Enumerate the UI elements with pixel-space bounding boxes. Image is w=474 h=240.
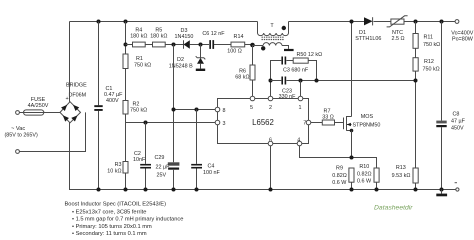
capacitor C8 [436,22,465,190]
svg-text:Vo=400V: Vo=400V [451,30,473,36]
svg-text:C4: C4 [208,164,215,170]
svg-text:180 kΩ: 180 kΩ [150,34,167,40]
diode D1 [355,17,381,42]
junction C29 bottom [172,188,176,192]
junction chain start [124,43,128,47]
junction R50 tap [315,79,319,83]
svg-text:R50 12 kΩ: R50 12 kΩ [297,52,323,58]
pin 5 [250,96,255,101]
svg-text:• Primary: 105 turns 20x0.1 mm: • Primary: 105 turns 20x0.1 mm [72,224,152,230]
junction C4 tap [195,108,199,112]
svg-text:1N4150: 1N4150 [175,34,194,40]
svg-text:D2: D2 [177,57,184,63]
svg-text:100 nF: 100 nF [203,170,220,176]
wire Vcc to pin8 [174,109,216,111]
svg-text:0.6 W: 0.6 W [357,179,372,185]
svg-text:2: 2 [269,105,272,111]
svg-text:R12: R12 [424,59,434,65]
junction R3 bottom [124,188,128,192]
wire pin4 sense [300,146,377,168]
junction pin6 bottom [269,188,273,192]
resistor R4 [130,28,147,47]
pin 8 [215,107,220,112]
capacitor C1 [94,22,123,190]
AC input terminal L [16,111,20,115]
svg-text:1N5248 B: 1N5248 B [169,64,193,70]
svg-text:MOS: MOS [361,114,374,120]
junction C8 rail [440,20,444,24]
svg-text:R10: R10 [359,164,369,170]
svg-text:22 µF: 22 µF [156,165,171,171]
junction R11 rail [414,20,418,24]
resistor R3 [107,162,128,175]
wire left divider [125,22,127,190]
pin 6 [268,141,273,146]
svg-text:R3: R3 [115,162,122,168]
junction comp left [269,79,273,83]
wire source [351,131,353,158]
junction sense node [350,156,354,160]
junction drain rail [350,20,354,24]
svg-text:3: 3 [223,121,226,127]
junction R9 bottom [350,188,354,192]
wire pin1 vertical [300,81,302,97]
transformer T secondary [253,43,289,49]
svg-text:• 1.5 mm gap for 0.7 mH primar: • 1.5 mm gap for 0.7 mH primary inductan… [72,217,183,223]
svg-text:• Secondary: 11 turns 0.1 mm: • Secondary: 11 turns 0.1 mm [72,231,147,237]
svg-text:C8: C8 [453,112,460,118]
svg-text:Po=80W: Po=80W [452,37,474,43]
svg-text:750 kΩ: 750 kΩ [423,42,440,48]
svg-text:33 Ω: 33 Ω [322,114,334,120]
resistor R5 [150,28,167,47]
op-amp U1 L6562 [218,99,309,144]
svg-text:8: 8 [223,108,226,114]
junction divider tap [414,79,418,83]
svg-text:180 kΩ: 180 kΩ [130,34,147,40]
svg-text:C3 680 nF: C3 680 nF [283,68,309,74]
wire R50 corner [308,61,316,81]
svg-text:750 kΩ: 750 kΩ [423,66,440,72]
svg-text:DF06M: DF06M [69,93,87,99]
transformer phase dot secondary [261,46,265,50]
watermark [374,205,413,212]
svg-text:C6 12 nF: C6 12 nF [202,31,225,37]
junction C8 bottom [440,188,444,192]
pin 2 [268,96,273,101]
svg-text:STP8NM50: STP8NM50 [353,122,381,128]
diode D3 [175,28,194,49]
junction C2 bottom [144,188,148,192]
wire fuse input [19,112,24,114]
svg-text:68 kΩ: 68 kΩ [235,75,249,81]
AC input terminal N [16,150,20,154]
ground main [436,190,447,197]
junction ZCD node [250,43,255,48]
svg-text:100 Ω: 100 Ω [227,48,242,54]
bridge rectifier DF06M [60,83,87,123]
resistor R10 [357,164,379,190]
resistor R13 [392,165,419,190]
resistor R2 [123,101,147,115]
svg-text:D1: D1 [359,30,366,36]
resistor R7 [311,109,343,126]
transformer phase dot primary [282,26,286,30]
resistor R50 [286,52,322,63]
svg-text:(85V to 265V): (85V to 265V) [5,133,38,139]
ground aux winding [284,49,294,51]
resistor R11 [413,22,440,58]
svg-text:R9: R9 [336,165,343,171]
wire pin6 ground [270,146,272,190]
svg-text:R13: R13 [396,165,406,171]
svg-text:1: 1 [299,105,302,111]
wire feedback row [286,80,415,82]
thermistor NTC [387,16,408,42]
svg-text:10 kΩ: 10 kΩ [107,169,121,175]
capacitor C6 [202,31,225,49]
resistor R6 [235,45,255,96]
junction divider top [124,20,128,24]
svg-text:Datasheetdir: Datasheetdir [374,205,413,212]
junction pin1 tap [299,79,303,83]
svg-text:R6: R6 [239,69,246,75]
svg-text:R1: R1 [136,56,143,62]
junction C1 bottom [97,188,101,192]
wire bridge plus to rail [69,22,71,102]
svg-text:4A/250V: 4A/250V [28,103,49,109]
svg-text:NTC: NTC [392,30,403,36]
resistor R1 [123,54,151,69]
svg-text:25V: 25V [157,173,167,179]
junction pump node [199,43,203,47]
svg-text:0.82Ω: 0.82Ω [357,171,372,177]
junction C4 bottom [195,188,199,192]
wire fuse to bridge [44,112,60,114]
transistor Q1 MOS STP8NM50 [344,114,381,133]
wire mult pin3 line [126,122,216,124]
junction Vcc pin8 line [172,108,176,112]
wire bottom rail [70,123,456,190]
wire AC return [19,112,85,151]
ground D2 [196,69,205,71]
capacitor C23 [271,77,297,101]
pin 7 [306,120,311,125]
svg-text:400V: 400V [106,98,119,104]
output terminal minus [455,183,459,191]
resistor R14 [227,34,244,54]
svg-text:10nF: 10nF [133,157,146,163]
capacitor C3 [281,57,308,74]
label Vac [5,126,38,139]
svg-text:• E25x13x7 core, 3C85 ferrite: • E25x13x7 core, 3C85 ferrite [72,209,146,215]
svg-text:2.5 Ω: 2.5 Ω [391,36,404,42]
svg-text:5: 5 [250,105,253,111]
note boost inductor spec [65,202,184,237]
svg-text:9.53 kΩ: 9.53 kΩ [392,173,411,179]
svg-text:R14: R14 [234,34,244,40]
capacitor C2 [133,123,151,190]
svg-text:750 kΩ: 750 kΩ [134,63,151,69]
wire drain [351,22,353,117]
capacitor C4 [191,110,220,190]
wire comp pin2 [271,61,282,97]
transformer T primary [258,22,289,36]
svg-text:47 µF: 47 µF [451,118,466,124]
junction R10 bottom [375,188,379,192]
fuse FUSE 4A/250V [24,97,49,115]
svg-text:T: T [270,23,274,29]
svg-text:0.6 W: 0.6 W [332,180,347,186]
resistor R12 [413,58,440,168]
svg-text:R11: R11 [424,35,434,41]
svg-text:D3: D3 [181,28,188,34]
svg-text:STTH1L06: STTH1L06 [355,36,381,42]
output terminal plus [451,20,473,43]
svg-text:C29: C29 [155,155,165,161]
svg-text:Boost Inductor Spec (ITACOIL E: Boost Inductor Spec (ITACOIL E2543/E) [65,202,167,208]
transformer core [262,37,285,39]
resistor R9 [332,165,354,189]
junction C2 tap [144,121,148,125]
zener D2 [169,45,205,70]
svg-text:L6562: L6562 [252,118,274,127]
pin 3 [215,120,220,125]
pin 1 [298,96,303,101]
pin 4 [297,141,302,146]
junction C1 top [97,20,101,24]
junction Vcc node [172,43,176,47]
svg-text:~ Vac: ~ Vac [11,126,25,132]
wire top rail [70,21,456,23]
wire startup chain [126,44,253,46]
wire Vcc vertical [173,45,175,190]
svg-text:450V: 450V [451,125,464,131]
svg-text:330 nF: 330 nF [279,94,296,100]
svg-text:750 kΩ: 750 kΩ [130,108,147,114]
junction R13 bottom [414,188,418,192]
svg-text:0.82Ω: 0.82Ω [332,173,347,179]
capacitor C29 [155,155,180,179]
